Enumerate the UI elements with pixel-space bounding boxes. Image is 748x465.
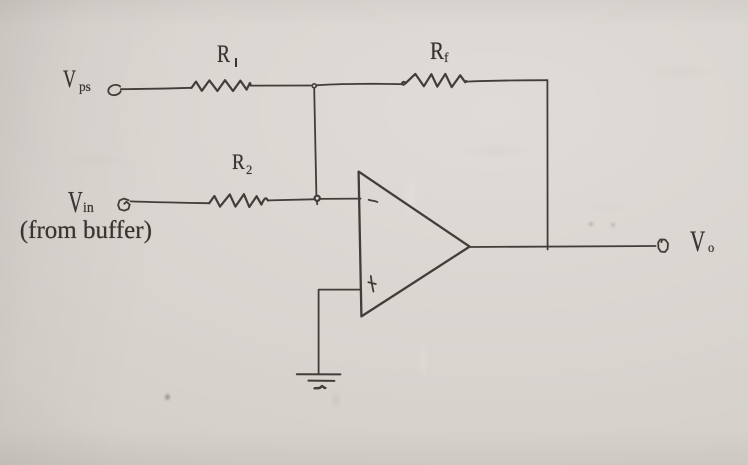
label Vin	[68, 186, 90, 217]
wire op-amp noninverting to ground drop	[319, 290, 361, 374]
wire Vps to R1	[121, 88, 192, 89]
wire R2 to node B	[268, 199, 313, 200]
label (from buffer)	[20, 218, 152, 243]
op-amp U1	[359, 172, 470, 317]
label R2	[232, 151, 247, 173]
label R1	[217, 42, 234, 67]
resistor R2	[209, 194, 268, 207]
wire node A to Rf	[317, 84, 403, 85]
terminal Vo	[658, 239, 668, 252]
terminal Vps	[108, 85, 121, 95]
minus label	[369, 200, 378, 202]
terminal Vin	[118, 199, 130, 211]
wire R1 to node A	[251, 85, 311, 87]
node B (junction)	[315, 196, 320, 201]
label Vo	[690, 227, 712, 257]
wire output	[470, 246, 656, 247]
faint specks and smudges	[165, 394, 170, 400]
plus label	[368, 276, 375, 292]
node A (junction)	[312, 84, 316, 88]
label Vps	[63, 67, 81, 92]
ground	[297, 373, 341, 375]
resistor Rf	[402, 74, 466, 87]
wire node A down to node B	[314, 88, 316, 196]
wire Rf to corner	[466, 80, 547, 81]
wire feedback vertical	[546, 80, 548, 249]
wire Vin to R2	[131, 201, 210, 203]
label Rf	[430, 39, 447, 64]
wire node B to op-amp inverting input	[319, 198, 360, 200]
resistor R1	[192, 80, 251, 91]
